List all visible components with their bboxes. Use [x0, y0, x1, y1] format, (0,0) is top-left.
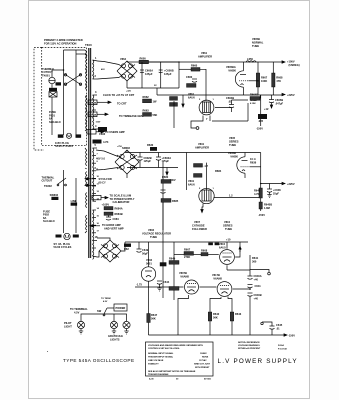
resistor R686 [160, 262, 167, 266]
resistor R608 [201, 253, 208, 256]
svg-text:AND VERT AMP: AND VERT AMP [104, 226, 124, 230]
wire drop V617B [228, 297, 232, 336]
svg-text:125µF: 125µF [144, 159, 152, 163]
svg-text:GRATICULE: GRATICULE [108, 334, 123, 338]
wire R640 down [260, 198, 262, 211]
ground B601 [79, 330, 83, 332]
svg-text:½6AN8: ½6AN8 [180, 275, 189, 279]
svg-text:TRIGGER INPUT SIGNAL: TRIGGER INPUT SIGNAL [148, 356, 174, 359]
svg-text:+40: +40 [254, 297, 259, 301]
svg-text:SLO-BLO: SLO-BLO [43, 219, 55, 223]
resistor R684B [194, 174, 203, 178]
svg-text:AMPLIFIER: AMPLIFIER [198, 55, 212, 59]
svg-text:SEE ALSO IMPORTANT NOTES ON TI: SEE ALSO IMPORTANT NOTES ON TIME-BASE [148, 370, 196, 373]
resistor R680 [161, 180, 171, 184]
svg-text:R662: R662 [143, 95, 150, 99]
svg-text:40V 5.0: 40V 5.0 [96, 157, 105, 161]
wire primary hot [63, 50, 65, 135]
wire lower neutral [75, 178, 77, 233]
power plug P600 115V [58, 134, 64, 137]
svg-text:AMPLIFIER: AMPLIFIER [195, 146, 209, 150]
wire mid rail lower [127, 167, 178, 169]
svg-text:R636: R636 [250, 161, 257, 165]
resistor R664 [250, 97, 260, 101]
ground C636 [267, 194, 271, 196]
svg-text:V605B: V605B [252, 37, 260, 41]
node A [178, 61, 180, 63]
node B [249, 288, 251, 290]
lamp B603 [123, 321, 130, 328]
arrow to users amp [87, 130, 96, 134]
svg-text:V602: V602 [146, 258, 153, 262]
resistor R685 [161, 199, 171, 203]
capacitor C645 [262, 322, 272, 326]
switch SW601 [104, 308, 107, 314]
resistor R609 power [258, 114, 267, 119]
svg-text:R684A: R684A [115, 207, 123, 211]
primary winding upper B [86, 95, 87, 129]
svg-text:V610: V610 [219, 242, 226, 246]
svg-text:.047µF: .047µF [275, 101, 284, 105]
svg-text:-150V: -150V [288, 334, 295, 338]
tube V605BA half envelope [235, 71, 243, 87]
resistor R650 [169, 287, 179, 291]
wire cathode hook V661 [191, 116, 203, 129]
svg-text:C660: C660 [186, 75, 193, 79]
svg-text:VOLTAGES AND WAVEFORMS WERE OB: VOLTAGES AND WAVEFORMS WERE OBTAINED WIT… [148, 344, 203, 347]
wire primary neutral [75, 50, 77, 135]
wire R605 [257, 62, 259, 73]
resistor R661 [187, 84, 197, 88]
svg-text:40V: 40V [101, 68, 105, 71]
svg-text:CONTROLS SET AS FOLLOWS:: CONTROLS SET AS FOLLOWS: [148, 347, 180, 350]
wire V610 plate [226, 242, 228, 249]
node C [260, 183, 262, 185]
svg-text:V635: V635 [229, 136, 236, 140]
arrow -150V [284, 334, 287, 336]
wire low rail [125, 241, 248, 243]
wire SR600 top output [126, 61, 128, 62]
svg-text:R640: R640 [254, 189, 261, 193]
secondary winding S2 [93, 95, 94, 129]
svg-text:TUBE: TUBE [252, 44, 259, 48]
wire cathode hook V631 [202, 204, 203, 210]
indicator box 6.3V [98, 127, 107, 132]
svg-text:R643: R643 [235, 312, 242, 316]
svg-text:LIGHTS: LIGHTS [110, 338, 120, 342]
svg-text:+40: +40 [254, 278, 259, 282]
svg-text:10 Ω: 10 Ω [250, 157, 256, 161]
wire lower hot [63, 170, 65, 233]
capacitor C660 [192, 78, 197, 80]
capacitor C680 [161, 189, 166, 191]
dashed enclosure 115V primary [42, 47, 87, 145]
svg-text:CALIBRATOR: CALIBRATOR [113, 200, 130, 204]
svg-text:1.2: 1.2 [229, 194, 233, 198]
primary winding lower segs [86, 151, 87, 166]
capacitor C640B [248, 292, 253, 294]
svg-text:R600: R600 [140, 57, 147, 61]
arrow to vert amp [97, 128, 98, 130]
svg-text:LINE VOLTAGE: LINE VOLTAGE [148, 359, 164, 362]
svg-text:6.3V 2A: 6.3V 2A [89, 114, 97, 117]
svg-text:R608: R608 [201, 249, 208, 253]
svg-text:TYPE 545A OSCILLOSCOPE: TYPE 545A OSCILLOSCOPE [63, 358, 135, 363]
svg-text:AT 565: AT 565 [204, 378, 212, 381]
wire tubes bias row [200, 286, 217, 288]
resistor R600 [139, 60, 149, 64]
svg-text:C640A: C640A [254, 274, 262, 278]
wire heater drop [182, 95, 184, 104]
arrow +100V to horiz amp [93, 225, 100, 227]
svg-text:NOMINAL INPUT SIGNAL: NOMINAL INPUT SIGNAL [148, 352, 174, 355]
wire drop V607B [178, 295, 189, 335]
capacitor C636 [269, 184, 271, 190]
power box [114, 304, 127, 311]
resistor R630 [150, 147, 157, 151]
wire grid row V610 [174, 254, 184, 256]
wire drop mid [210, 297, 221, 335]
svg-text:R641: R641 [252, 256, 259, 260]
svg-text:+100V: +100V [102, 202, 110, 206]
svg-text:50-60 CYCLES: 50-60 CYCLES [54, 245, 72, 249]
svg-text:R.904: R.904 [278, 344, 284, 347]
svg-text:C684: C684 [113, 217, 120, 221]
wire R660 leads [179, 68, 191, 70]
svg-text:+10: +10 [226, 238, 231, 242]
svg-text:NOTED: REFERENCE: NOTED: REFERENCE [238, 342, 260, 344]
wire mid rail upper [125, 152, 261, 154]
wire mid column [173, 242, 175, 261]
wire S3 to SR602 [96, 150, 118, 157]
svg-text:TO USERS AMP: TO USERS AMP [105, 130, 125, 134]
svg-text:R664B: R664B [250, 93, 258, 97]
wire under-row [212, 120, 248, 122]
svg-text:R684B: R684B [115, 212, 123, 216]
svg-text:50-60 CYCLES: 50-60 CYCLES [55, 144, 73, 148]
capacitor C640A [249, 270, 251, 276]
svg-text:6AU6: 6AU6 [188, 183, 195, 187]
svg-text:TO CRT: TO CRT [117, 102, 127, 106]
svg-text:TRIGGER DIAGRAM: TRIGGER DIAGRAM [148, 373, 169, 376]
voltage selector switch [65, 74, 82, 85]
secondary heater ladder [93, 148, 94, 201]
wire drop arrow [166, 168, 168, 173]
svg-text:C644: C644 [163, 280, 170, 284]
capacitor C600 [141, 62, 143, 88]
svg-text:SW: SW [97, 309, 102, 313]
notes box [146, 342, 214, 376]
capacitor C604 [108, 215, 110, 217]
svg-text:TUBE: TUBE [150, 235, 157, 239]
svg-text:CUTOUT: CUTOUT [42, 179, 53, 183]
svg-text:½6AN8: ½6AN8 [213, 277, 222, 281]
svg-text:TO TERM: TO TERM [101, 298, 111, 300]
resistor R603 [104, 212, 113, 215]
resistor R660 [191, 68, 200, 72]
wire left feed column [148, 62, 179, 88]
svg-text:R684: R684 [215, 169, 222, 173]
svg-text:-150V: -150V [258, 213, 265, 217]
svg-text:V617B: V617B [212, 273, 220, 277]
svg-text:TK602: TK602 [44, 184, 52, 188]
resistor R605 [256, 73, 259, 87]
capacitor C641 [248, 284, 253, 286]
arrow to timebase [88, 112, 97, 117]
svg-text:V664: V664 [120, 57, 127, 61]
svg-text:C641: C641 [255, 284, 262, 288]
wire bottom return [127, 87, 179, 89]
svg-text:V661: V661 [188, 92, 195, 96]
svg-text:V635B: V635B [228, 151, 236, 155]
resistor R607 [184, 252, 194, 256]
capacitor C630A [138, 156, 143, 158]
svg-text:V605BA: V605BA [226, 65, 236, 69]
wire top rail +unreg [127, 61, 139, 63]
arrow +225V out [282, 182, 285, 184]
svg-text:R640B: R640B [264, 203, 272, 207]
svg-text:125µF: 125µF [145, 72, 153, 76]
tube V635B half envelope [237, 157, 245, 173]
svg-text:SLO-BLO: SLO-BLO [49, 120, 61, 124]
bridge rectifier SR600 [117, 57, 137, 148]
line indicator box [56, 82, 62, 85]
svg-text:V610: V610 [224, 220, 231, 224]
wire primary taps upper [85, 50, 87, 52]
svg-text:STABILITY: STABILITY [148, 363, 159, 366]
label +225V [282, 93, 285, 95]
ground C644 [157, 287, 161, 289]
wire grid row [215, 107, 232, 109]
svg-text:POWER: POWER [116, 306, 126, 310]
wire bias row [135, 286, 184, 288]
dashed enclosure outer edge [34, 47, 44, 150]
wire left col [162, 162, 164, 180]
svg-text:8.15K: 8.15K [250, 103, 256, 105]
wire lamps top [81, 314, 127, 318]
resistor R640B [259, 202, 262, 209]
svg-text:.01: .01 [276, 327, 280, 331]
wire left col lower [162, 202, 164, 298]
svg-text:V602: V602 [148, 228, 155, 232]
wire S1 to SR600 [98, 61, 120, 65]
svg-text:V661: V661 [201, 51, 208, 55]
svg-text:FOLLOWER: FOLLOWER [192, 227, 207, 231]
wire grid column V631 [186, 153, 188, 191]
pin lead bottom [209, 116, 211, 122]
lamp B602 [110, 321, 117, 328]
resistor R642 [208, 312, 212, 321]
resistor R604 [104, 207, 113, 210]
capacitor C644 [157, 280, 162, 282]
svg-text:R649: R649 [169, 257, 176, 261]
resistor R643 [230, 312, 234, 321]
svg-text:56µF: 56µF [142, 252, 148, 256]
wire SR602 output [126, 150, 128, 153]
svg-text:+325: +325 [126, 91, 132, 93]
svg-text:VOLTAGE READINGS: VOLTAGE READINGS [238, 344, 260, 347]
svg-text:5651: 5651 [146, 262, 152, 266]
arrow sweep vert [88, 184, 96, 186]
resistor R663 [143, 113, 152, 117]
svg-text:R642: R642 [213, 312, 220, 316]
svg-text:R660: R660 [191, 64, 198, 68]
svg-text:360: 360 [252, 260, 257, 264]
arrow sweep horiz [88, 178, 96, 180]
svg-text:SERIES: SERIES [223, 224, 233, 228]
fuse F601 [49, 88, 57, 91]
svg-text:R62: R62 [124, 247, 129, 251]
svg-text:(UNREG): (UNREG) [289, 63, 300, 67]
wire plate V635B [244, 153, 246, 157]
resistor R640 [259, 188, 262, 198]
svg-text:R685: R685 [172, 199, 179, 203]
svg-text:+100V: +100V [287, 60, 295, 64]
svg-text:4.7K: 4.7K [103, 140, 109, 144]
transformer core [88, 48, 91, 258]
bridge rectifier SR602 [115, 146, 139, 174]
svg-text:SERIES: SERIES [229, 140, 239, 144]
svg-text:56K: 56K [151, 317, 156, 321]
svg-text:R607: R607 [261, 76, 268, 80]
wire V610 cathode down [239, 242, 241, 252]
wire top links [64, 49, 86, 51]
svg-text:-1.75: -1.75 [136, 283, 142, 287]
resistor R662 [143, 99, 152, 103]
arrow +100V unreg [282, 61, 285, 63]
secondary tap stubs [93, 60, 98, 61]
svg-text:6.3V 4A: 6.3V 4A [89, 102, 97, 105]
svg-text:4.5V: 4.5V [74, 311, 80, 315]
pin 5 [205, 75, 207, 101]
capacitor C649 [137, 248, 142, 250]
wire +225 output row [261, 183, 282, 185]
secondary winding S1 [93, 60, 94, 79]
wire SR600 bottom [126, 81, 128, 88]
svg-text:V631: V631 [198, 142, 205, 146]
wire R606 [272, 62, 274, 73]
wire S4 to SR604 [97, 238, 110, 240]
svg-text:1.8M: 1.8M [264, 206, 270, 210]
svg-text:6AU6: 6AU6 [188, 96, 195, 100]
wire cathode to +225 out [250, 166, 261, 168]
svg-text:SW602: SW602 [50, 193, 59, 197]
svg-text:-1.7: -1.7 [204, 164, 209, 168]
resistor R647 [147, 314, 151, 323]
resistor R666 [170, 103, 178, 107]
lamp B601 pilot [77, 321, 84, 328]
svg-text:VOLTAGE REGULATOR: VOLTAGE REGULATOR [142, 232, 171, 236]
svg-text:C649: C649 [142, 248, 149, 252]
svg-text:R663: R663 [143, 109, 150, 113]
wire V602 top [148, 242, 150, 267]
svg-text:LIGHT: LIGHT [64, 325, 72, 329]
capacitor C630B [156, 156, 161, 158]
svg-text:4.7K: 4.7K [254, 192, 260, 196]
resistor R665 [170, 97, 178, 101]
wire column x=260.7 down [260, 95, 262, 114]
svg-text:4.5V: 4.5V [103, 300, 108, 303]
svg-text:R607: R607 [184, 248, 191, 252]
ground B603 [124, 330, 128, 332]
resistor R684 [93, 140, 102, 144]
wire plate V605 up [243, 62, 245, 71]
svg-text:TO TIMEBASE GEN.: TO TIMEBASE GEN. [119, 114, 144, 118]
svg-text:PILOT: PILOT [64, 321, 72, 325]
svg-text:TUBE: TUBE [225, 227, 232, 231]
svg-text:25µF: 25µF [273, 192, 279, 196]
svg-text:P.1.67.58: P.1.67.58 [278, 349, 288, 351]
wire to -150 [260, 119, 262, 126]
svg-text:T600: T600 [85, 43, 92, 47]
capacitor C601 [160, 62, 162, 88]
svg-text:½6080: ½6080 [230, 155, 238, 159]
secondary winding S4 heater [93, 210, 94, 259]
resistor R642A [124, 244, 131, 247]
svg-text:TK601: TK601 [42, 73, 50, 77]
wire SR604 output to rail [121, 242, 125, 251]
wire primary lower taps [85, 148, 87, 151]
wire V610 pins [235, 249, 240, 257]
svg-text:TUBE: TUBE [229, 143, 236, 147]
svg-text:V607B: V607B [179, 271, 187, 275]
wire plate V631 [206, 163, 208, 190]
wire +225 column [260, 153, 262, 189]
svg-text:½6080: ½6080 [228, 69, 236, 73]
svg-text:R608: R608 [276, 76, 283, 80]
svg-text:125µF: 125µF [164, 72, 172, 76]
svg-text:+225V: +225V [287, 182, 295, 186]
svg-text:WITHIN ±20 PERCENT: WITHIN ±20 PERCENT [238, 348, 261, 350]
svg-text:V631: V631 [188, 179, 195, 183]
svg-text:C664B: C664B [226, 96, 234, 100]
svg-text:NONE: NONE [202, 357, 209, 359]
svg-text:1W: 1W [153, 100, 157, 104]
svg-text:6AU5: 6AU5 [219, 246, 226, 250]
svg-text:CLICK TO +67.5V AT CRT: CLICK TO +67.5V AT CRT [103, 93, 135, 97]
svg-text:+12: +12 [264, 107, 269, 111]
svg-text:CATHODE: CATHODE [192, 224, 205, 228]
resistor R614 heater [215, 243, 220, 246]
wire hook to terminal [250, 270, 269, 273]
resistor R684A [194, 164, 203, 168]
wire V631 out right [214, 197, 261, 199]
wire grid feed V661 [173, 101, 175, 128]
svg-text:+225V: +225V [287, 93, 295, 97]
svg-text:-150V: -150V [256, 127, 263, 131]
wire grid right [249, 80, 259, 82]
svg-text:100MV: 100MV [200, 353, 207, 355]
svg-text:C645: C645 [276, 323, 283, 327]
svg-text:WITH PRESET: WITH PRESET [195, 367, 210, 369]
arrow to scale illum [92, 195, 101, 199]
wire V602 bottom [148, 282, 150, 336]
svg-text:FOR 115V AC OPERATION: FOR 115V AC OPERATION [44, 41, 77, 45]
svg-text:115V: 115V [96, 122, 101, 124]
resistor R606 [272, 73, 275, 87]
svg-text:V607: V607 [194, 220, 201, 224]
svg-text:SR602: SR602 [122, 146, 130, 150]
bridge rectifier SR604 [99, 240, 121, 262]
resistor R649 [169, 261, 179, 265]
svg-text:SINE OUT JUST: SINE OUT JUST [194, 364, 211, 366]
resistor R613 heater [208, 243, 213, 246]
svg-text:+C636: +C636 [273, 188, 281, 192]
svg-text:47K: 47K [276, 79, 281, 83]
svg-text:TO TERMINAL: TO TERMINAL [70, 307, 88, 311]
svg-text:NORMAL: NORMAL [252, 41, 264, 45]
svg-text:C640B: C640B [254, 293, 262, 297]
